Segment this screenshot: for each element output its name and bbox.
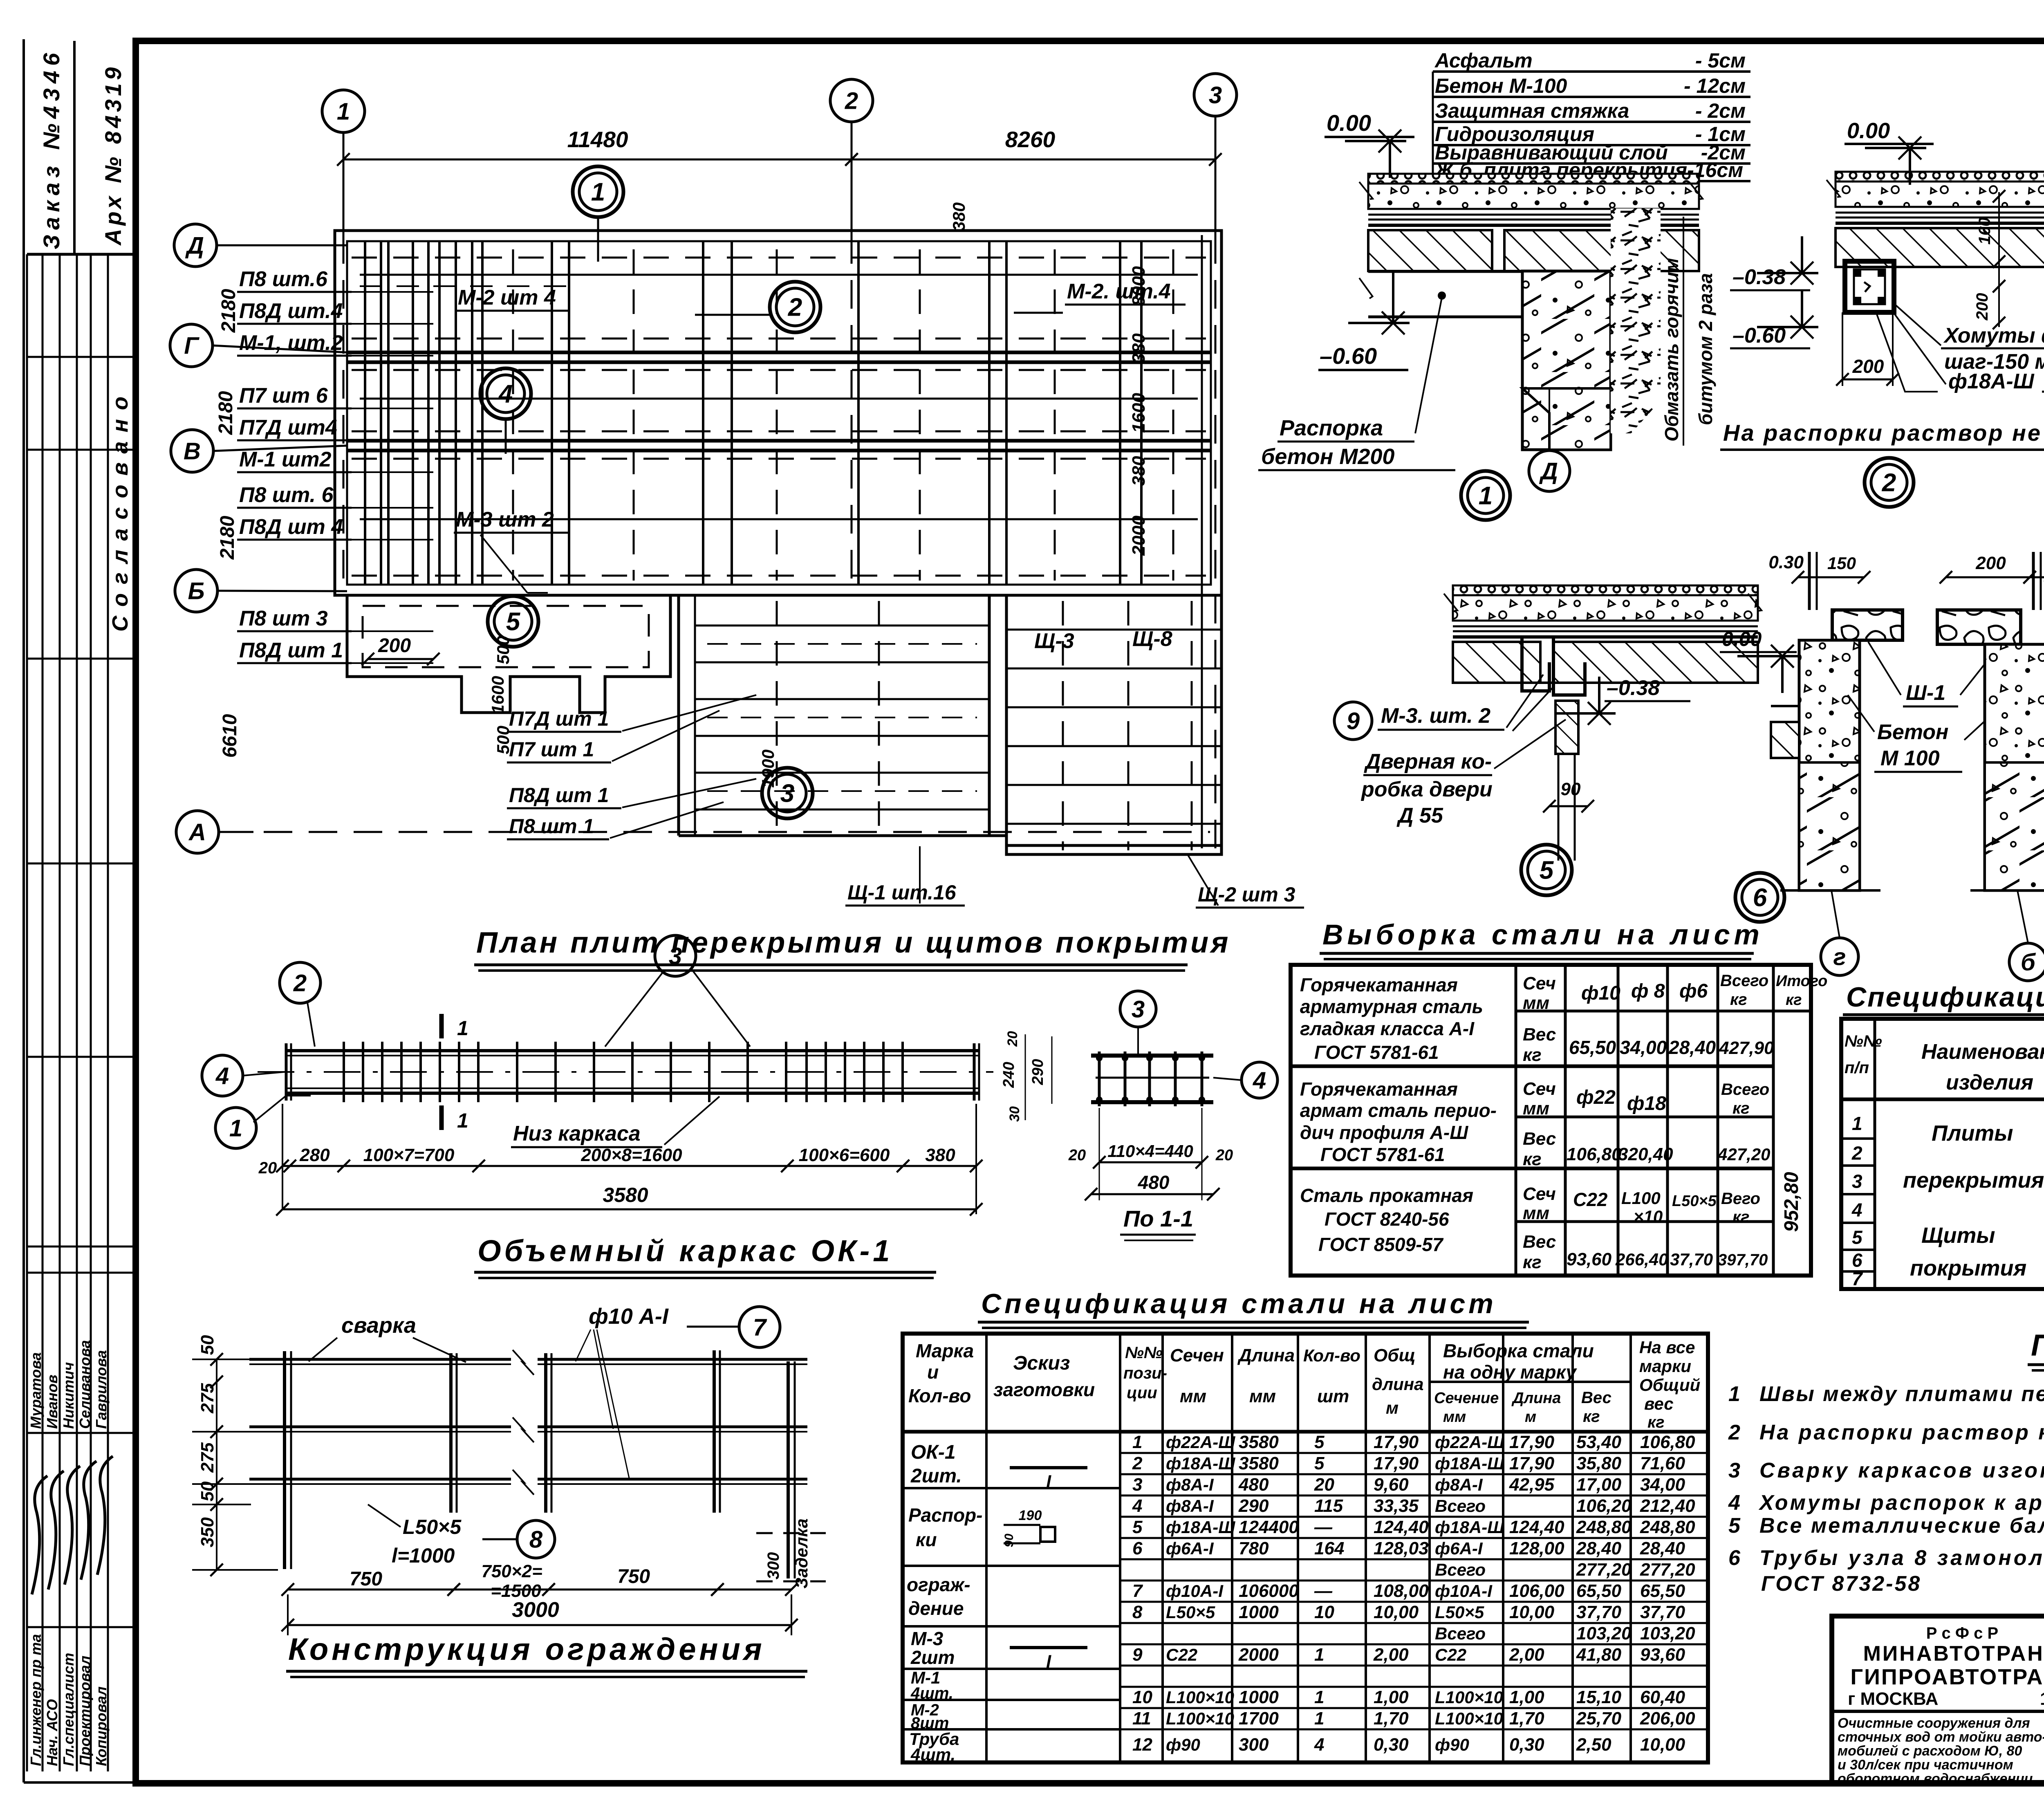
- svg-text:115: 115: [1314, 1496, 1343, 1516]
- svg-text:Вес: Вес: [1523, 1129, 1556, 1149]
- svg-text:Конструкция ограждения: Конструкция ограждения: [288, 1632, 765, 1667]
- svg-text:5: 5: [506, 608, 521, 636]
- svg-text:480: 480: [1238, 1475, 1269, 1495]
- svg-text:арматурная сталь: арматурная сталь: [1300, 996, 1483, 1017]
- plan beam band on axis Г: [347, 351, 1211, 354]
- svg-text:ГОСТ 8732-58: ГОСТ 8732-58: [1761, 1572, 1921, 1596]
- svg-text:Примечание: Примечание: [2031, 1328, 2044, 1362]
- svg-text:L100×10: L100×10: [1435, 1709, 1503, 1728]
- cage centre line: [258, 1071, 993, 1073]
- svg-text:ГОСТ 8509-57: ГОСТ 8509-57: [1318, 1234, 1444, 1255]
- detail 2 column section: [1845, 261, 1894, 312]
- detail 6 trough Ш-1: [1832, 610, 1903, 640]
- svg-text:Арх № 84319: Арх № 84319: [100, 64, 126, 246]
- svg-text:ф90: ф90: [1166, 1735, 1200, 1754]
- svg-text:3: 3: [669, 943, 682, 969]
- svg-text:L100×10: L100×10: [1166, 1688, 1234, 1707]
- svg-text:ф 8: ф 8: [1631, 980, 1665, 1002]
- svg-text:Хомуты ф6А-I: Хомуты ф6А-I: [1943, 324, 2044, 348]
- detail 7 wall column: [1985, 644, 2044, 890]
- svg-text:ограж-: ограж-: [907, 1574, 970, 1595]
- svg-text:248,80: 248,80: [1640, 1517, 1695, 1537]
- svg-text:17,00: 17,00: [1576, 1475, 1622, 1495]
- section axis circle 4: [1242, 1062, 1277, 1098]
- svg-text:200: 200: [1852, 356, 1884, 377]
- fence dim 3000: [288, 1624, 791, 1626]
- svg-text:МИНАВТОТРАНС: МИНАВТОТРАНС: [1863, 1642, 2044, 1666]
- svg-text:380: 380: [925, 1145, 955, 1165]
- detail 1 lower slab lines: [1368, 270, 1522, 273]
- svg-text:15,10: 15,10: [1576, 1687, 1622, 1707]
- svg-text:Всего: Всего: [1435, 1624, 1486, 1643]
- plan lower right panels block: [1006, 595, 1221, 854]
- detail 7 axis circle б: [2009, 943, 2044, 981]
- slab screed lines: [1368, 214, 1699, 216]
- svg-text:мобилей с расходом Ю, 80: мобилей с расходом Ю, 80: [1838, 1743, 2022, 1759]
- svg-text:1000: 1000: [1239, 1687, 1279, 1707]
- detail 5 circle 9: [1334, 702, 1372, 740]
- svg-text:Длина: Длина: [1237, 1345, 1295, 1365]
- plan row В-Б mid lines: [360, 518, 1198, 520]
- svg-text:3580: 3580: [603, 1184, 648, 1206]
- svg-text:мм: мм: [1180, 1386, 1206, 1406]
- svg-text:164: 164: [1314, 1538, 1344, 1558]
- slab hatched band: [1453, 642, 1540, 683]
- svg-text:1971г: 1971г: [2040, 1689, 2044, 1709]
- outer left trim line: [22, 39, 25, 1782]
- svg-text:11480: 11480: [567, 127, 628, 152]
- svg-text:Защитная стяжка: Защитная стяжка: [1435, 99, 1629, 122]
- bottom trim line: [24, 1781, 2044, 1784]
- svg-text:0,30: 0,30: [1374, 1735, 1409, 1755]
- plan lower-left block outline: [347, 595, 670, 713]
- svg-text:2: 2: [1132, 1453, 1143, 1473]
- axis circle В: [171, 430, 213, 472]
- svg-text:Ш-1: Ш-1: [1906, 681, 1945, 705]
- section dims: [1099, 1161, 1202, 1164]
- svg-text:4: 4: [1851, 1199, 1862, 1221]
- detail 7 trough: [1937, 610, 2021, 644]
- slab hatched band: [1368, 230, 1492, 271]
- fence bottom dims 750: [288, 1569, 791, 1570]
- svg-text:Согласовано: Согласовано: [108, 388, 132, 632]
- plan left dense plate joints: [364, 241, 366, 585]
- svg-text:Асфальт: Асфальт: [1434, 49, 1533, 72]
- svg-text:4: 4: [1253, 1067, 1266, 1094]
- svg-text:4: 4: [1132, 1496, 1142, 1516]
- svg-text:шт: шт: [1317, 1386, 1349, 1406]
- detail 1 node circle Д: [1529, 451, 1570, 491]
- svg-text:Вес: Вес: [1581, 1389, 1611, 1407]
- svg-text:1700: 1700: [1239, 1708, 1279, 1729]
- svg-text:1,00: 1,00: [1509, 1687, 1544, 1707]
- detail 6 railing post: [1808, 552, 1811, 610]
- plan dashed above Г: [352, 338, 1206, 340]
- svg-text:Щиты: Щиты: [1921, 1223, 1995, 1248]
- svg-text:перекрытия: перекрытия: [1903, 1168, 2044, 1193]
- svg-text:ф10А-I: ф10А-I: [1166, 1581, 1224, 1601]
- detail 6 axis circle г: [1821, 938, 1858, 975]
- stamp column grid: [73, 41, 76, 254]
- svg-text:М 100: М 100: [1880, 747, 1940, 770]
- svg-text:10,00: 10,00: [1509, 1602, 1555, 1622]
- svg-text:сварка: сварка: [341, 1313, 416, 1338]
- svg-text:Объемный каркас ОК-1: Объемный каркас ОК-1: [477, 1234, 893, 1268]
- svg-text:мм: мм: [1443, 1408, 1466, 1426]
- svg-text:Всего: Всего: [1720, 972, 1768, 990]
- svg-text:ф18: ф18: [1627, 1093, 1666, 1114]
- svg-text:Щ-1 шт.16: Щ-1 шт.16: [847, 881, 957, 904]
- svg-text:110×4=440: 110×4=440: [1107, 1141, 1193, 1161]
- svg-text:3: 3: [1132, 1475, 1142, 1495]
- svg-text:робка двери: робка двери: [1360, 778, 1493, 801]
- svg-text:17,90: 17,90: [1509, 1453, 1555, 1473]
- svg-text:кг: кг: [1786, 991, 1802, 1009]
- svg-text:оборотном водоснабжении: оборотном водоснабжении: [1838, 1771, 2033, 1787]
- svg-text:ф22А-Ш: ф22А-Ш: [1435, 1433, 1504, 1452]
- svg-text:П7 шт 6: П7 шт 6: [239, 384, 328, 408]
- svg-text:290: 290: [1238, 1496, 1269, 1516]
- axis circle 3 top: [1194, 74, 1237, 116]
- svg-text:Г: Г: [184, 332, 199, 359]
- svg-text:3580: 3580: [1239, 1453, 1279, 1473]
- slab screed lines: [1453, 626, 1758, 628]
- svg-text:1: 1: [1728, 1382, 1740, 1406]
- svg-text:L50×5: L50×5: [403, 1516, 462, 1538]
- svg-text:Горячекатанная: Горячекатанная: [1300, 1078, 1458, 1100]
- svg-text:–0.60: –0.60: [1320, 343, 1377, 369]
- svg-text:350: 350: [197, 1517, 217, 1547]
- cage dimension chain: [282, 1165, 976, 1167]
- svg-text:С22: С22: [1573, 1189, 1608, 1210]
- svg-text:280: 280: [299, 1145, 330, 1165]
- svg-text:10,00: 10,00: [1640, 1735, 1685, 1755]
- svg-text:L100: L100: [1621, 1188, 1661, 1208]
- svg-text:124400: 124400: [1239, 1517, 1299, 1537]
- detail 5 door head block: [1555, 701, 1578, 754]
- svg-text:кг: кг: [1523, 1149, 1542, 1169]
- cage cross-section По 1-1: [1091, 1054, 1213, 1058]
- svg-text:50: 50: [197, 1335, 217, 1355]
- svg-text:28,40: 28,40: [1640, 1538, 1685, 1558]
- svg-text:Итого: Итого: [1776, 973, 1827, 990]
- svg-text:дич профиля А-Ш: дич профиля А-Ш: [1300, 1122, 1468, 1143]
- svg-text:п/п: п/п: [1845, 1059, 1869, 1077]
- table Спецификация стали sketches: [1010, 1466, 1087, 1469]
- svg-text:Всего: Всего: [1435, 1560, 1486, 1579]
- fence left dim chain: [248, 1359, 249, 1484]
- svg-text:кг: кг: [1732, 1208, 1750, 1226]
- svg-text:Всего: Всего: [1721, 1081, 1769, 1099]
- svg-text:ф6А-I: ф6А-I: [1166, 1539, 1214, 1558]
- svg-text:2,00: 2,00: [1509, 1645, 1544, 1665]
- svg-text:275: 275: [197, 1442, 217, 1473]
- svg-text:93,60: 93,60: [1567, 1249, 1612, 1269]
- svg-text:П7Д шт4: П7Д шт4: [239, 416, 337, 439]
- svg-text:ки: ки: [916, 1529, 937, 1550]
- fence rail break marks: [513, 1350, 534, 1375]
- svg-text:1: 1: [591, 178, 605, 206]
- svg-text:290: 290: [1029, 1059, 1047, 1085]
- svg-text:Р с Ф с Р: Р с Ф с Р: [1926, 1624, 1998, 1642]
- svg-text:4: 4: [215, 1063, 229, 1089]
- svg-text:А: А: [188, 819, 206, 845]
- svg-text:битумом 2 раза: битумом 2 раза: [1695, 273, 1716, 425]
- svg-text:Б: Б: [188, 578, 204, 604]
- svg-text:7: 7: [1132, 1581, 1143, 1601]
- dimension 8260: [852, 159, 1215, 161]
- svg-text:106,80: 106,80: [1640, 1432, 1695, 1452]
- svg-text:мм: мм: [1523, 993, 1549, 1013]
- slab concrete layer: [1453, 595, 1758, 621]
- svg-text:4: 4: [1314, 1735, 1324, 1755]
- svg-text:200: 200: [1975, 553, 2006, 573]
- svg-text:армат сталь перио-: армат сталь перио-: [1300, 1100, 1497, 1121]
- svg-text:×10: ×10: [1634, 1207, 1663, 1226]
- svg-text:300: 300: [764, 1552, 782, 1580]
- svg-text:ф22: ф22: [1576, 1087, 1616, 1108]
- svg-text:Щ-8: Щ-8: [1132, 627, 1172, 651]
- svg-text:277,20: 277,20: [1576, 1560, 1632, 1580]
- plan lower-left dim 200: [368, 658, 433, 660]
- svg-text:28,40: 28,40: [1576, 1538, 1622, 1558]
- axis line 3: [1215, 116, 1217, 235]
- svg-text:Вес: Вес: [1523, 1232, 1556, 1252]
- svg-text:ГОСТ 8240-56: ГОСТ 8240-56: [1325, 1208, 1449, 1230]
- svg-text:10,00: 10,00: [1374, 1602, 1419, 1622]
- svg-text:Распорка: Распорка: [1280, 416, 1383, 440]
- svg-text:l=1000: l=1000: [392, 1544, 455, 1567]
- detail 1 bitumen zone: [1611, 209, 1661, 433]
- svg-text:ф18А-Ш: ф18А-Ш: [1166, 1454, 1235, 1473]
- svg-text:План плит перекрытия и щитов п: План плит перекрытия и щитов покрытия: [476, 926, 1230, 959]
- svg-text:ГИПРОАВТОТРАНС: ГИПРОАВТОТРАНС: [1850, 1665, 2044, 1689]
- svg-text:248,80: 248,80: [1576, 1517, 1632, 1537]
- svg-text:Д: Д: [1539, 458, 1558, 484]
- svg-text:0.00: 0.00: [1722, 628, 1762, 650]
- svg-text:ф8А-I: ф8А-I: [1435, 1475, 1483, 1494]
- svg-text:П7 шт 1: П7 шт 1: [509, 738, 594, 761]
- slab bead layer: [1836, 172, 2044, 182]
- svg-text:124,40: 124,40: [1374, 1517, 1429, 1537]
- svg-text:Трубы узла 8 замонолитить в бе: Трубы узла 8 замонолитить в бетон Трубы …: [1759, 1546, 2044, 1570]
- svg-text:300: 300: [1239, 1735, 1269, 1755]
- svg-text:37,70: 37,70: [1576, 1602, 1622, 1622]
- table Спецификация элементов grid: [1841, 1019, 2044, 1289]
- svg-text:Сеч: Сеч: [1523, 973, 1556, 993]
- svg-text:изделия: изделия: [1946, 1071, 2033, 1094]
- axis line А dashed: [219, 831, 1210, 833]
- svg-text:380: 380: [1129, 456, 1149, 486]
- cage stirrup ticks: [343, 1042, 345, 1102]
- svg-text:4: 4: [498, 380, 513, 408]
- svg-text:м: м: [1386, 1398, 1399, 1417]
- svg-text:9: 9: [1347, 708, 1360, 734]
- svg-text:гладкая класса А-I: гладкая класса А-I: [1300, 1018, 1475, 1039]
- stamp signatures: [32, 1476, 47, 1594]
- svg-text:5: 5: [1314, 1453, 1325, 1473]
- svg-text:Сечен: Сечен: [1170, 1345, 1224, 1365]
- svg-text:и: и: [927, 1361, 939, 1383]
- svg-text:42,95: 42,95: [1509, 1475, 1555, 1495]
- svg-text:Бетон М-100: Бетон М-100: [1435, 74, 1567, 97]
- svg-text:20: 20: [258, 1159, 277, 1177]
- svg-text:71,60: 71,60: [1640, 1453, 1685, 1473]
- svg-text:2: 2: [1882, 469, 1896, 497]
- svg-text:60,40: 60,40: [1640, 1687, 1685, 1707]
- svg-text:Очистные сооружения для: Очистные сооружения для: [1838, 1715, 2030, 1731]
- svg-text:–0.38: –0.38: [1607, 676, 1660, 700]
- svg-text:Спецификация элементов перекры: Спецификация элементов перекрытия и покр…: [1846, 982, 2044, 1013]
- svg-text:ф18А-Ш: ф18А-Ш: [1435, 1454, 1504, 1473]
- detail 6 wall column: [1799, 640, 1860, 890]
- svg-text:2: 2: [845, 87, 858, 114]
- cage axis circle 1: [215, 1108, 256, 1148]
- svg-text:П8Д шт 4: П8Д шт 4: [239, 515, 343, 539]
- svg-text:3: 3: [1852, 1171, 1862, 1192]
- svg-text:3: 3: [1209, 82, 1222, 108]
- svg-text:8: 8: [1132, 1602, 1143, 1622]
- svg-text:1000: 1000: [1239, 1602, 1279, 1622]
- svg-text:9,60: 9,60: [1374, 1475, 1409, 1495]
- svg-text:200: 200: [1973, 293, 1991, 321]
- svg-text:Кол-во: Кол-во: [1303, 1346, 1360, 1365]
- detail 6 left slab: [1771, 705, 1799, 707]
- fence post 2: [449, 1353, 453, 1513]
- svg-text:Д 55: Д 55: [1396, 804, 1443, 827]
- svg-text:бетон М200: бетон М200: [1261, 444, 1394, 469]
- axis circle Г: [170, 324, 213, 367]
- fence rails: [249, 1358, 511, 1361]
- svg-text:0.30: 0.30: [1768, 552, 1804, 572]
- svg-text:ф18А-Ш: ф18А-Ш: [1435, 1518, 1504, 1537]
- svg-text:L50×5: L50×5: [1166, 1603, 1215, 1622]
- svg-text:г: г: [1833, 944, 1846, 970]
- svg-text:кг: кг: [1730, 991, 1747, 1009]
- svg-text:500: 500: [493, 726, 513, 754]
- svg-text:мм: мм: [1249, 1386, 1276, 1406]
- svg-text:106,00: 106,00: [1509, 1581, 1564, 1601]
- svg-text:1: 1: [1314, 1645, 1324, 1665]
- svg-text:Копировал: Копировал: [93, 1686, 110, 1766]
- svg-text:- 12см: - 12см: [1684, 74, 1746, 97]
- plan dashed above В: [352, 430, 1206, 433]
- svg-text:Проектировал: Проектировал: [76, 1656, 93, 1766]
- svg-text:М-2. шт.4: М-2. шт.4: [1067, 280, 1171, 303]
- svg-text:9: 9: [1132, 1645, 1143, 1665]
- slab bead layer: [1453, 585, 1758, 595]
- axis circle 2 top: [830, 79, 873, 122]
- svg-text:В: В: [184, 438, 201, 464]
- svg-text:20: 20: [1068, 1147, 1086, 1164]
- svg-text:Никитич: Никитич: [60, 1362, 77, 1429]
- svg-text:ф90: ф90: [1435, 1735, 1469, 1754]
- svg-text:сточных вод от мойки авто-: сточных вод от мойки авто-: [1838, 1729, 2044, 1745]
- svg-text:М-3. шт. 2: М-3. шт. 2: [1381, 704, 1490, 728]
- svg-text:длина: длина: [1372, 1374, 1423, 1394]
- svg-text:200: 200: [378, 635, 411, 657]
- svg-text:12: 12: [1132, 1735, 1152, 1755]
- axis circle А: [176, 811, 219, 853]
- dimension 11480: [343, 159, 852, 161]
- svg-text:Общ: Общ: [1374, 1345, 1416, 1365]
- slab concrete layer: [1836, 182, 2044, 207]
- svg-text:1: 1: [457, 1017, 468, 1040]
- fence post 3: [544, 1353, 547, 1513]
- svg-text:1: 1: [337, 98, 350, 125]
- section axis circle 3: [1120, 991, 1156, 1027]
- svg-text:№№: №№: [1845, 1032, 1882, 1050]
- detail 1 wall: [1522, 271, 1611, 450]
- svg-text:Вес: Вес: [1523, 1025, 1556, 1045]
- svg-text:П8 шт.6: П8 шт.6: [239, 267, 328, 291]
- svg-text:397,70: 397,70: [1718, 1251, 1768, 1269]
- cage axis circle 3: [655, 935, 696, 976]
- svg-text:65,50: 65,50: [1576, 1581, 1622, 1601]
- svg-text:3000: 3000: [512, 1598, 559, 1622]
- axis line 2: [851, 122, 853, 235]
- svg-text:206,00: 206,00: [1640, 1708, 1695, 1729]
- svg-text:2шт.: 2шт.: [910, 1465, 962, 1487]
- plan upper block outline: [335, 231, 1221, 595]
- svg-text:Длина: Длина: [1511, 1390, 1561, 1407]
- svg-text:2: 2: [293, 970, 307, 996]
- svg-text:20: 20: [1314, 1475, 1334, 1495]
- svg-text:5: 5: [1132, 1517, 1143, 1537]
- svg-text:8: 8: [529, 1526, 543, 1553]
- svg-text:11: 11: [1132, 1708, 1151, 1729]
- svg-text:П7Д шт 1: П7Д шт 1: [509, 707, 609, 730]
- slab concrete layer: [1368, 184, 1699, 209]
- svg-text:Спецификация стали на лист: Спецификация стали на лист: [981, 1288, 1497, 1319]
- svg-text:2: 2: [788, 294, 802, 322]
- svg-text:212,40: 212,40: [1640, 1496, 1695, 1516]
- svg-text:Обмазать горячим: Обмазать горячим: [1661, 258, 1682, 442]
- cage ОК-1 chords: [286, 1049, 979, 1052]
- detail 5 node circle 5: [1521, 845, 1572, 895]
- svg-text:7: 7: [1852, 1268, 1863, 1289]
- svg-text:6: 6: [1728, 1546, 1741, 1570]
- svg-text:ф18А-Ш: ф18А-Ш: [1166, 1518, 1235, 1537]
- svg-text:90: 90: [1561, 779, 1581, 799]
- svg-text:Эскиз: Эскиз: [1013, 1352, 1070, 1374]
- detail 5 joint metal М-3: [1522, 638, 1549, 691]
- svg-text:106,20: 106,20: [1576, 1496, 1632, 1516]
- svg-text:780: 780: [1239, 1538, 1269, 1558]
- detail 5 door frame lines: [1558, 754, 1560, 861]
- svg-text:Хомуты распорок к арматуре вяз: Хомуты распорок к арматуре вязать вязаль…: [1758, 1491, 2044, 1515]
- svg-text:5: 5: [1728, 1514, 1741, 1538]
- svg-text:кг: кг: [1732, 1099, 1750, 1117]
- svg-text:2,50: 2,50: [1576, 1735, 1611, 1755]
- slab hatched band: [1836, 228, 2044, 267]
- svg-text:Плиты: Плиты: [1932, 1121, 2013, 1146]
- svg-text:—: —: [1314, 1581, 1333, 1601]
- svg-text:37,70: 37,70: [1640, 1602, 1685, 1622]
- svg-text:Иванов: Иванов: [44, 1374, 61, 1429]
- svg-text:кг: кг: [1647, 1413, 1665, 1431]
- detail 2 node circle 2: [1865, 458, 1914, 507]
- svg-text:ф10А-I: ф10А-I: [1435, 1581, 1493, 1601]
- detail 6 node circle 6: [1735, 873, 1784, 922]
- svg-text:Низ каркаса: Низ каркаса: [513, 1122, 641, 1146]
- cage section mark 1-1: [439, 1014, 444, 1038]
- svg-text:103,20: 103,20: [1576, 1623, 1632, 1643]
- svg-text:ф10: ф10: [1581, 982, 1620, 1004]
- cage left end bars: [285, 1043, 288, 1101]
- plan row Д-Г mid lines: [360, 274, 1198, 276]
- svg-text:Муратова: Муратова: [27, 1352, 44, 1429]
